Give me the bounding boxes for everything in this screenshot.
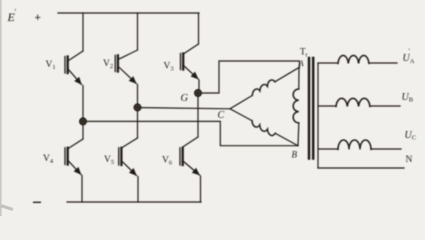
minus terminal	[33, 201, 41, 203]
wire V4 emitter to bottom rail	[81, 176, 83, 203]
transistor V5	[119, 138, 138, 176]
svg-text:A: A	[298, 58, 305, 68]
wire node3 to V6	[197, 96, 199, 137]
wire leg3 collector drop	[198, 13, 200, 44]
svg-text:G: G	[181, 93, 189, 104]
svg-text:B: B	[292, 150, 298, 160]
wire node1 to V4	[82, 125, 84, 140]
transistor V6	[180, 137, 200, 175]
scan smudge bottom-left	[1, 204, 13, 211]
secondary winding phase A	[318, 55, 397, 63]
wire V6 emitter to bottom rail	[200, 176, 202, 202]
primary winding C-B (delta side)	[230, 109, 298, 146]
wire neutral N	[318, 167, 404, 169]
wire secondary star common	[317, 63, 319, 168]
primary winding C-A (delta side)	[230, 68, 299, 109]
wire node2 to V5	[137, 111, 139, 139]
scan edge artifact left	[0, 0, 2, 216]
wire bottom DC rail	[67, 201, 201, 203]
node junction leg2	[134, 104, 140, 110]
secondary winding phase B	[318, 98, 400, 106]
wire V5 emitter to bottom rail	[137, 177, 139, 203]
transistor V3	[181, 44, 199, 79]
transistor V1	[65, 51, 83, 85]
node junction leg1	[80, 118, 86, 124]
node junction leg3	[195, 90, 201, 96]
wire node1 to delta vertex B	[86, 121, 298, 145]
primary winding A-B (delta side)	[293, 68, 299, 146]
transformer core bar right	[312, 58, 315, 159]
transistor V4	[65, 139, 83, 175]
svg-text:′: ′	[15, 8, 17, 17]
svg-text:C: C	[218, 110, 225, 121]
wire node3 to delta vertex A	[201, 61, 300, 93]
wire V3 emitter to node3	[198, 80, 200, 90]
wire V1 emitter to node1	[82, 86, 84, 119]
svg-text:+: +	[35, 12, 41, 24]
wire V2 emitter to node2	[137, 85, 139, 105]
transistor V2	[115, 50, 137, 84]
wire node2 to delta vertex C	[141, 108, 231, 109]
wire leg2 collector drop	[137, 13, 139, 50]
secondary winding phase C	[318, 140, 401, 149]
wire top DC rail	[58, 12, 199, 14]
svg-text:N: N	[406, 155, 413, 165]
transformer core bar left	[308, 58, 311, 159]
wire leg1 collector drop	[82, 13, 84, 51]
